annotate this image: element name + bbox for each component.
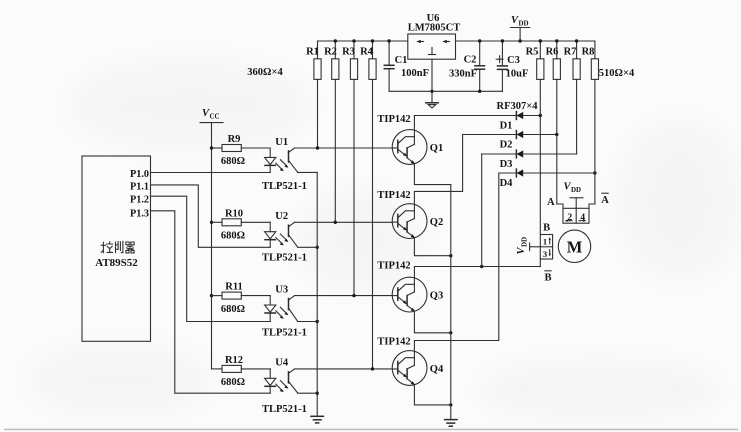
resistor R6: [546, 41, 561, 79]
ground (regulator): [426, 103, 438, 108]
node rail R5: [539, 39, 542, 42]
wire D3 riser: [481, 154, 483, 267]
winding B box phases 1 and 3: [540, 235, 552, 260]
svg-text:3: 3: [543, 249, 547, 259]
svg-text:TLP521-1: TLP521-1: [262, 404, 307, 415]
wire Q2 collector riser: [414, 135, 462, 204]
power VDD main: [510, 15, 529, 41]
diode D2: [500, 131, 524, 151]
wire P1.3 to U4 cathode: [151, 211, 271, 393]
svg-text:R12: R12: [225, 355, 243, 366]
node C2 bottom: [478, 90, 481, 93]
capacitor C3 (polarized): [496, 41, 528, 91]
svg-text:Q3: Q3: [430, 291, 443, 302]
resistor R5: [526, 41, 544, 79]
diode D1: [500, 112, 524, 132]
svg-text:RF307×4: RF307×4: [497, 101, 539, 112]
svg-text:R9: R9: [228, 134, 241, 145]
wire Q1 collector: [413, 116, 415, 130]
node D4 junction: [593, 171, 596, 174]
svg-text:R1: R1: [306, 47, 319, 58]
svg-text:R4: R4: [360, 47, 374, 58]
wire R8 column down to winding Abar: [594, 79, 596, 204]
wire U2 collector row to Q base: [295, 221, 393, 223]
node opto rail U3 emitter: [316, 320, 319, 323]
resistor R9: [212, 134, 271, 167]
wire R5 column down to winding B: [539, 79, 541, 234]
resistor R2: [324, 41, 339, 79]
node U4 collector / R column junction: [371, 367, 374, 370]
opto-isolator U3 TLP521-1: [262, 284, 317, 338]
svg-text:Q2: Q2: [430, 217, 443, 228]
svg-text:TLP521-1: TLP521-1: [262, 253, 307, 264]
svg-text:R5: R5: [526, 47, 539, 58]
node VCC-R10: [210, 221, 213, 224]
svg-text:680Ω: 680Ω: [221, 231, 245, 242]
svg-text:TIP142: TIP142: [377, 114, 410, 125]
wire R3 column: [353, 79, 355, 295]
node cap ground junction: [430, 90, 433, 93]
resistor R12: [212, 355, 271, 388]
wire D3 row: [482, 153, 577, 155]
wire Q1 emitter to ground column: [414, 164, 450, 184]
opto-isolator U2 TLP521-1: [262, 211, 317, 263]
svg-text:680Ω: 680Ω: [221, 377, 245, 388]
svg-text:Q1: Q1: [430, 143, 443, 154]
wire R4 column: [372, 79, 374, 369]
svg-text:AT89S52: AT89S52: [95, 257, 138, 269]
wire regulator ground stem: [431, 59, 433, 103]
svg-text:B: B: [543, 223, 550, 234]
wire Q2 emitter to ground column: [414, 239, 450, 256]
svg-text:R8: R8: [582, 47, 595, 58]
svg-text:DD: DD: [519, 20, 529, 28]
capacitor C1: [384, 41, 429, 91]
svg-text:D4: D4: [500, 178, 514, 189]
node rail R2: [334, 39, 337, 42]
node C1 top: [387, 39, 390, 42]
diode D3: [500, 150, 524, 170]
svg-text:TIP142: TIP142: [377, 261, 410, 272]
motor M: [558, 230, 590, 262]
node C3 top: [501, 39, 504, 42]
svg-text:680Ω: 680Ω: [221, 156, 245, 167]
wire Q3 emitter to ground column: [414, 312, 450, 333]
svg-text:330nF: 330nF: [449, 68, 477, 79]
node rail R7: [575, 39, 578, 42]
wire D4 row: [499, 172, 595, 174]
label controller chinese: [101, 241, 134, 253]
svg-text:U1: U1: [275, 137, 288, 148]
svg-text:A: A: [547, 197, 555, 208]
svg-text:P1.0: P1.0: [130, 169, 149, 180]
transistor Q1 TIP142: [377, 114, 443, 164]
wire R1 column: [317, 79, 319, 148]
wire cap ground rail: [389, 90, 502, 92]
svg-text:DD: DD: [571, 186, 581, 194]
svg-text:TIP142: TIP142: [377, 190, 410, 201]
node rail R3: [352, 39, 355, 42]
svg-text:P1.3: P1.3: [130, 209, 149, 220]
wire input rail: [318, 40, 408, 42]
power VDD winding A center tap: [564, 182, 584, 224]
svg-text:R7: R7: [564, 47, 577, 58]
svg-text:TIP142: TIP142: [377, 337, 410, 348]
svg-text:DD: DD: [521, 237, 529, 247]
svg-text:LM7805CT: LM7805CT: [408, 23, 461, 34]
svg-text:360Ω×4: 360Ω×4: [247, 67, 283, 78]
svg-text:D1: D1: [500, 121, 513, 132]
wire D2 row: [463, 134, 557, 136]
svg-text:680Ω: 680Ω: [221, 304, 245, 315]
wire U3 collector row to Q base: [295, 295, 393, 297]
svg-text:CC: CC: [210, 113, 220, 121]
wire Q4 collector riser: [414, 173, 498, 351]
regulator U6 LM7805CT: [408, 13, 461, 59]
wire Q3 collector to Bbar wire: [414, 267, 540, 278]
node D3 riser junction: [480, 265, 483, 268]
scan artifact bottom line: [4, 428, 738, 430]
node Bbar terminal label: [544, 271, 551, 284]
resistor R1: [306, 41, 321, 79]
power VCC: [200, 108, 223, 123]
node Abar terminal label: [601, 193, 609, 206]
svg-text:C2: C2: [464, 55, 477, 66]
node Q4 emitter junction: [449, 403, 452, 406]
svg-text:C1: C1: [395, 55, 408, 66]
node Q2 emitter junction: [449, 254, 452, 257]
wire P1.0 to U1 cathode: [151, 172, 271, 174]
wire R7 column down to D3 row: [576, 79, 578, 154]
resistor R11: [212, 282, 271, 315]
capacitor C2: [449, 41, 485, 91]
svg-text:1: 1: [543, 236, 547, 246]
node Q3 emitter junction: [449, 331, 452, 334]
node VDD stem: [518, 39, 521, 42]
svg-text:100nF: 100nF: [401, 68, 429, 79]
wire VCC rail: [211, 123, 213, 369]
transistor Q4 TIP142: [377, 337, 444, 386]
node D1 junction: [539, 114, 542, 117]
svg-text:P1.2: P1.2: [130, 194, 149, 205]
svg-text:Q4: Q4: [430, 364, 444, 375]
wire D1 row: [414, 115, 540, 117]
resistor R10: [212, 208, 271, 241]
wire output rail: [456, 40, 595, 42]
svg-text:A: A: [601, 195, 609, 206]
node U3 collector / R column junction: [352, 294, 355, 297]
node rail R6: [555, 39, 558, 42]
svg-text:R3: R3: [342, 47, 355, 58]
svg-text:R2: R2: [324, 47, 337, 58]
svg-text:R11: R11: [225, 282, 243, 293]
svg-text:R10: R10: [225, 208, 243, 219]
transistor Q3 TIP142: [377, 261, 443, 313]
resistor R4: [360, 41, 376, 79]
power VDD winding B center tap: [516, 237, 540, 255]
ground (power stage): [445, 420, 457, 427]
resistor R8: [582, 41, 599, 79]
ground (optocouplers): [311, 416, 323, 423]
node opto rail U4 emitter: [316, 392, 319, 395]
wire winding A hat right step: [589, 204, 595, 208]
svg-text:U2: U2: [275, 211, 288, 222]
wire emitter ground column: [450, 185, 452, 420]
wire R6 column down to winding A terminal: [556, 79, 558, 204]
svg-text:10uF: 10uF: [506, 69, 529, 80]
opto-isolator U1 TLP521-1: [262, 137, 317, 192]
node opto rail U2 emitter: [316, 246, 319, 249]
wire winding A hat left step: [557, 204, 563, 208]
svg-text:U4: U4: [275, 358, 289, 369]
node VCC-R9: [210, 146, 213, 149]
svg-text:B: B: [544, 273, 551, 284]
wire U4 collector row to Q base: [295, 368, 393, 370]
svg-text:R6: R6: [546, 47, 559, 58]
diode D4: [500, 169, 524, 189]
node U1 collector / R column junction: [316, 146, 319, 149]
svg-text:C3: C3: [507, 55, 520, 66]
svg-text:M: M: [567, 238, 583, 257]
svg-text:TLP521-1: TLP521-1: [262, 327, 307, 338]
svg-text:D2: D2: [500, 140, 513, 151]
wire P1.2 to U3 cathode: [151, 196, 271, 321]
wire R2 column: [334, 79, 336, 222]
resistor R3: [342, 41, 358, 79]
winding A box phases 2 and 4: [563, 208, 589, 223]
controller AT89S52 box: [82, 156, 151, 341]
node VCC-R11: [210, 294, 213, 297]
svg-text:U3: U3: [275, 284, 288, 295]
svg-text:D3: D3: [500, 159, 513, 170]
node D2 junction: [555, 133, 558, 136]
svg-text:510Ω×4: 510Ω×4: [599, 68, 635, 79]
svg-text:P1.1: P1.1: [130, 181, 149, 192]
wire P1.1 to U2 cathode: [151, 185, 271, 247]
svg-text:TLP521-1: TLP521-1: [262, 181, 307, 192]
node U2 collector / R column junction: [334, 221, 337, 224]
wire Q4 emitter to ground column: [414, 385, 450, 405]
opto-isolator U4 TLP521-1: [262, 358, 317, 415]
wire winding B bottom stub to Bbar: [539, 259, 541, 267]
svg-text:2: 2: [567, 213, 572, 223]
transistor Q2 TIP142: [377, 190, 443, 239]
node C2 top: [478, 39, 481, 42]
resistor R7: [564, 41, 581, 79]
node rail R4: [371, 39, 374, 42]
wire U1 collector row to Q base: [295, 147, 393, 149]
wire opto emitter ground rail: [316, 172, 318, 416]
